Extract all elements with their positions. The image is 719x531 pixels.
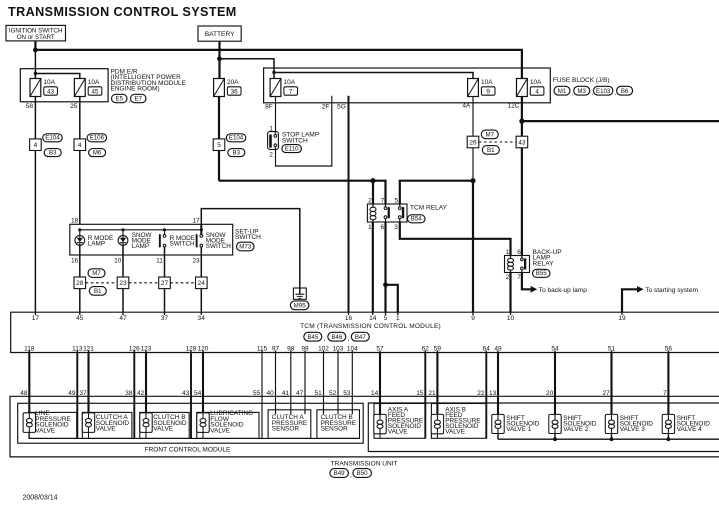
connector M7/B1 row b	[117, 277, 129, 289]
back-up lamp relay box U:B55	[505, 256, 530, 273]
svg-text:103: 103	[333, 345, 344, 352]
TCM bottom pin 99	[304, 351, 306, 353]
junction pin 6 branch	[383, 282, 388, 287]
connector E106/M6 pass-through	[74, 139, 86, 151]
svg-text:10A: 10A	[88, 79, 100, 86]
common return bus front control module	[29, 437, 360, 439]
TCM module box	[11, 312, 719, 352]
svg-text:TCM RELAY: TCM RELAY	[410, 205, 448, 212]
fuse F9 10A	[468, 79, 479, 97]
wire sensor signal	[290, 353, 292, 415]
back-up relay contact 6-7	[521, 258, 524, 261]
wire bus to R mode lamp	[79, 230, 81, 236]
svg-text:10A: 10A	[530, 79, 542, 86]
svg-text:VALVE 4: VALVE 4	[677, 426, 703, 433]
wire solenoid feed	[379, 353, 381, 415]
fuse F4 10A	[517, 79, 528, 97]
svg-text:4: 4	[535, 88, 539, 95]
wire TCM relay pin 1 to TCM pin 14	[372, 222, 374, 312]
svg-text:VALVE: VALVE	[153, 426, 174, 433]
indicator lamp (LED) SNOW MODE LAMP	[118, 236, 128, 246]
svg-text:5: 5	[394, 197, 398, 204]
svg-text:,: ,	[348, 336, 350, 343]
solenoid coil clutch B solenoid valve	[140, 413, 152, 433]
svg-text:M6: M6	[93, 149, 102, 156]
svg-text:27: 27	[161, 280, 169, 287]
wire 5G to TCM pin 16	[348, 103, 350, 312]
svg-text:M95: M95	[294, 303, 307, 310]
battery source box	[198, 26, 241, 41]
svg-text:120: 120	[198, 345, 209, 352]
TCM bottom pin 118	[28, 351, 30, 353]
svg-text:45: 45	[76, 315, 84, 322]
svg-text:23: 23	[192, 257, 200, 264]
ignition switch source box	[6, 25, 66, 41]
svg-text:97: 97	[272, 345, 280, 352]
wire sensor signal	[351, 353, 353, 415]
junction battery branch	[217, 56, 222, 61]
solenoid coil shift solenoid valve 2	[549, 414, 561, 433]
TCM relay contact 7-6	[384, 207, 387, 210]
svg-text:E110: E110	[285, 145, 299, 152]
TCM top pin 47	[122, 312, 124, 315]
wire solenoid feed	[145, 353, 147, 413]
svg-text:20A: 20A	[227, 79, 239, 86]
svg-text:2: 2	[506, 274, 510, 281]
transmission unit outer box	[10, 396, 719, 457]
svg-text:5: 5	[217, 142, 221, 149]
svg-text:ON or START: ON or START	[17, 34, 55, 41]
wire fuse 7 to stop lamp switch pin 1	[275, 97, 277, 132]
wire shift solenoid valve 1 to common bus	[497, 434, 499, 440]
indicator lamp (LED) R MODE LAMP	[75, 236, 85, 246]
svg-text:B3: B3	[49, 149, 57, 156]
svg-text:B49: B49	[334, 470, 346, 477]
svg-text:SWITCH: SWITCH	[235, 234, 261, 241]
wire relay feed run A	[219, 181, 386, 204]
wire solenoid feed	[436, 353, 438, 415]
svg-text:RELAY: RELAY	[533, 260, 555, 267]
TCM bottom pin 113	[76, 351, 78, 353]
wire solenoid feed	[667, 353, 669, 415]
svg-text:VALVE: VALVE	[388, 429, 409, 436]
svg-text:19: 19	[618, 315, 626, 322]
svg-text:SWITCH: SWITCH	[170, 241, 195, 248]
svg-text:24: 24	[198, 280, 206, 287]
axis B feed pressure solenoid valve box	[431, 404, 486, 439]
wire set-up 16 to TCM 45	[79, 245, 81, 312]
TCM bottom pin 49	[497, 351, 499, 353]
svg-text:11: 11	[156, 257, 163, 264]
svg-text:FRONT CONTROL MODULE: FRONT CONTROL MODULE	[145, 446, 231, 453]
set-up switch box M73	[70, 224, 233, 255]
solenoid coil axis B feed	[431, 414, 443, 433]
solenoid coil shift solenoid valve 4	[662, 414, 674, 433]
TCM bottom pin 120	[202, 351, 204, 353]
wire battery drop	[218, 41, 220, 78]
svg-text:43: 43	[47, 88, 55, 95]
clutch B pressure sensor box	[317, 410, 360, 439]
solenoid coil shift solenoid valve 3	[605, 414, 617, 433]
TCM top pin 34	[200, 312, 202, 315]
transmission unit inner box	[368, 403, 719, 452]
svg-text:M3: M3	[577, 88, 586, 95]
svg-text:54: 54	[551, 345, 559, 352]
svg-text:VALVE 3: VALVE 3	[620, 426, 646, 433]
wire sensor signal	[304, 353, 306, 415]
svg-text:102: 102	[318, 345, 329, 352]
svg-text:7: 7	[517, 274, 521, 281]
TCM bottom pin 104	[351, 351, 353, 353]
svg-text:2008/03/14: 2008/03/14	[23, 495, 58, 502]
fuse F36 20A	[214, 79, 225, 97]
axis A feed pressure solenoid valve box	[374, 404, 425, 439]
svg-text:VALVE: VALVE	[35, 427, 56, 434]
svg-text:128: 128	[186, 345, 197, 352]
junction fuse block internal	[272, 71, 275, 74]
svg-text:E104: E104	[45, 135, 60, 142]
junction run B to fuse 9 line	[470, 178, 475, 183]
svg-text:2: 2	[368, 197, 372, 204]
wire solenoid feed	[87, 353, 89, 413]
svg-text:115: 115	[257, 345, 268, 352]
svg-text:34: 34	[198, 315, 206, 322]
svg-text:2F: 2F	[322, 103, 330, 110]
connector refs E5 E7	[112, 94, 128, 102]
wire sensor signal	[323, 353, 325, 415]
svg-text:26: 26	[469, 139, 477, 146]
wire solenoid feed	[497, 353, 499, 415]
TCM bottom pin 102	[323, 351, 325, 353]
TCM bottom pin 54	[554, 351, 556, 353]
svg-text:B50: B50	[357, 470, 369, 477]
switch contacts SNOW MODE SWITCH	[200, 235, 203, 238]
connector refs E106 M6	[87, 134, 107, 142]
svg-text:VALVE 2: VALVE 2	[563, 426, 589, 433]
connector M7/B1 row c	[159, 277, 171, 289]
wire ignition switch to bus	[34, 41, 36, 50]
line pressure solenoid valve box	[29, 412, 77, 438]
svg-text:E5: E5	[115, 96, 123, 103]
TCM bottom pin 98	[290, 351, 292, 353]
junction ignition bus	[33, 48, 38, 53]
TCM top pin 17	[34, 312, 36, 315]
wire ignition drop into IPDM	[34, 50, 36, 79]
fuse F45 10A	[74, 79, 85, 97]
svg-text:B47: B47	[355, 334, 367, 341]
svg-text:10A: 10A	[481, 79, 493, 86]
svg-text:10: 10	[114, 257, 122, 264]
svg-text:121: 121	[83, 345, 94, 352]
wire fuse 9 through connector 26	[472, 97, 474, 181]
svg-text:37: 37	[161, 315, 169, 322]
wire sensor signal	[261, 353, 263, 439]
wire bus to snow mode lamp	[122, 230, 124, 236]
svg-text:118: 118	[24, 345, 35, 352]
wire 12C feed to page edge	[522, 120, 719, 122]
svg-text:113: 113	[72, 345, 83, 352]
set-up internal bus	[80, 229, 202, 231]
wire solenoid return	[76, 353, 78, 439]
svg-text:FUSE BLOCK (J/B): FUSE BLOCK (J/B)	[553, 77, 610, 84]
connector refs E104 B3	[43, 134, 63, 142]
TCM relay box U:B54	[367, 204, 407, 222]
TCM top pin 14	[372, 312, 374, 315]
fuse F43 10A	[30, 79, 41, 97]
svg-text:M7: M7	[486, 132, 495, 139]
junction 12C feed	[519, 119, 524, 124]
svg-text:43: 43	[518, 139, 526, 146]
svg-text:99: 99	[301, 345, 309, 352]
svg-text:4: 4	[78, 142, 82, 149]
svg-text:TCM (TRANSMISSION CONTROL MODU: TCM (TRANSMISSION CONTROL MODULE)	[300, 323, 441, 330]
svg-text:4A: 4A	[462, 103, 471, 110]
svg-text:64: 64	[483, 345, 491, 352]
svg-text:7: 7	[381, 197, 385, 204]
svg-text:45: 45	[91, 88, 99, 95]
IPDM E/R box	[20, 69, 108, 102]
TCM bottom pin 56	[667, 351, 669, 353]
wire set-up 11 to TCM 37	[164, 247, 166, 312]
svg-text:B54: B54	[411, 216, 423, 223]
wire fuse 36 down to TCM relay feed line	[218, 97, 220, 181]
svg-text:LAMP: LAMP	[132, 243, 149, 250]
svg-text:5: 5	[384, 315, 388, 322]
svg-text:,: ,	[350, 472, 352, 479]
svg-text:E106: E106	[90, 135, 105, 142]
svg-text:B1: B1	[94, 288, 102, 295]
svg-text:49: 49	[494, 345, 502, 352]
svg-text:126: 126	[129, 345, 140, 352]
svg-text:6: 6	[380, 224, 384, 231]
svg-text:2: 2	[269, 152, 273, 159]
svg-text:VALVE 1: VALVE 1	[506, 426, 532, 433]
TCM top pin 45	[79, 312, 81, 315]
svg-text:To back-up lamp: To back-up lamp	[539, 287, 587, 294]
svg-text:,: ,	[324, 336, 326, 343]
wire battery branch to fuse block	[220, 59, 275, 79]
svg-text:1: 1	[269, 125, 273, 132]
wire stop lamp switch pin 2 to fuse block 2F	[276, 103, 332, 166]
solenoid coil line pressure solenoid valve	[23, 413, 35, 433]
junction shift 2	[553, 437, 557, 441]
svg-text:1: 1	[396, 315, 400, 322]
TCM relay coil	[370, 207, 376, 211]
svg-text:To starting system: To starting system	[645, 287, 698, 294]
TCM top pin 9	[472, 312, 474, 315]
svg-text:M73: M73	[239, 244, 252, 251]
TCM bottom pin 121	[88, 351, 90, 353]
wire solenoid return	[133, 353, 135, 439]
junction IPDM internal	[34, 72, 37, 75]
svg-text:1: 1	[506, 249, 510, 256]
connector M7/B1 side B	[516, 136, 528, 148]
svg-text:VALVE: VALVE	[445, 429, 466, 436]
TCM bottom pin 103	[337, 351, 339, 353]
svg-text:25: 25	[70, 103, 78, 110]
TCM top pin 37	[164, 312, 166, 315]
svg-text:36: 36	[231, 88, 239, 95]
junction relay coil feed	[370, 178, 375, 183]
svg-text:12C: 12C	[508, 103, 520, 110]
svg-text:47: 47	[119, 315, 127, 322]
svg-text:B6: B6	[621, 88, 629, 95]
wire TCM pin 19 to starting system	[622, 289, 637, 312]
TCM relay internal pin stubs	[372, 204, 374, 208]
wire shift solenoid valve 2 to common bus	[554, 434, 556, 440]
svg-text:E103: E103	[596, 88, 611, 95]
connector ref B54	[408, 215, 426, 223]
wire shift solenoid valve 3 to common bus	[611, 434, 613, 440]
svg-text:10A: 10A	[284, 79, 296, 86]
TCM top pin 1	[397, 312, 399, 315]
wire solenoid feed	[202, 353, 204, 413]
TCM bottom pin 123	[145, 351, 147, 353]
wire set-up pin 17 to ground M95	[201, 209, 299, 294]
wire TCM relay coil pin 2 drop	[372, 181, 374, 204]
svg-text:1: 1	[368, 224, 372, 231]
svg-text:62: 62	[422, 345, 430, 352]
svg-text:M1: M1	[558, 88, 567, 95]
TCM relay contact 5-3	[398, 207, 401, 210]
wire fuse 9 line down to TCM pin 9	[472, 181, 474, 313]
svg-text:SENSOR: SENSOR	[321, 426, 349, 433]
svg-text:BATTERY: BATTERY	[205, 31, 235, 38]
ground ref M95	[290, 301, 309, 310]
front control module box	[18, 403, 364, 443]
svg-text:28: 28	[76, 280, 84, 287]
svg-text:SWITCH: SWITCH	[206, 243, 231, 250]
dashed connector link 26 to 43	[479, 141, 516, 143]
wire branch to TCM pin 1	[386, 285, 398, 312]
TCM bottom pin 59	[436, 351, 438, 353]
svg-text:10: 10	[507, 315, 515, 322]
svg-text:9: 9	[471, 315, 475, 322]
clutch A pressure sensor box	[268, 410, 311, 439]
wire TCM relay pin 3 to back-up relay pin 1	[400, 222, 511, 256]
svg-text:14: 14	[369, 315, 377, 322]
fuse block J/B box	[264, 68, 551, 103]
svg-text:5G: 5G	[337, 103, 346, 110]
wire solenoid feed	[554, 353, 556, 415]
svg-text:B46: B46	[331, 334, 343, 341]
solenoid coil shift solenoid valve 1	[492, 414, 504, 433]
wire relay contact pin 5 riser run B	[400, 181, 473, 204]
junction shift 3	[610, 437, 614, 441]
connector refs M1 M3 E103 B6	[554, 86, 570, 95]
wire set-up 23 to TCM 34	[200, 247, 202, 312]
wire shift solenoid valve 4 to common bus	[667, 434, 669, 440]
svg-text:B45: B45	[307, 334, 319, 341]
svg-text:9: 9	[486, 88, 490, 95]
svg-text:16: 16	[345, 315, 353, 322]
svg-text:104: 104	[347, 345, 358, 352]
connector refs E104 B3 (battery feed)	[226, 134, 246, 142]
wire set-up 10 to TCM 47	[122, 245, 124, 312]
svg-text:6: 6	[517, 249, 521, 256]
svg-text:4: 4	[34, 142, 38, 149]
svg-text:8F: 8F	[265, 103, 273, 110]
svg-text:17: 17	[192, 217, 200, 224]
svg-text:M7: M7	[92, 270, 101, 277]
svg-text:B3: B3	[233, 149, 241, 156]
TCM bottom pin 62	[424, 351, 426, 353]
svg-text:E104: E104	[229, 135, 244, 142]
switch contacts R MODE SWITCH	[163, 235, 166, 238]
clutch A solenoid valve box	[82, 412, 132, 438]
TCM bottom pin 51	[611, 351, 613, 353]
fuse F7 10A	[270, 79, 281, 97]
solenoid coil axis A feed	[374, 414, 386, 433]
svg-text:TRANSMISSION UNIT: TRANSMISSION UNIT	[331, 460, 398, 467]
svg-text:B1: B1	[487, 147, 495, 154]
stub pin 2F	[331, 96, 333, 103]
svg-text:TRANSMISSION CONTROL SYSTEM: TRANSMISSION CONTROL SYSTEM	[8, 5, 237, 19]
connector ref M73	[237, 242, 255, 251]
connector refs M7 B1	[481, 130, 498, 139]
wire sensor signal	[275, 353, 277, 415]
TCM bottom pin 97	[275, 351, 277, 353]
junction shift 4	[667, 437, 671, 441]
TCM top pin 5	[385, 312, 387, 315]
wire fuse 4 to back-up lamp relay pin 6	[521, 97, 523, 256]
svg-text:123: 123	[141, 345, 152, 352]
wire bus to R mode switch	[164, 230, 166, 235]
svg-text:SWITCH: SWITCH	[282, 137, 308, 144]
dashed connector row link	[86, 282, 118, 284]
svg-text:57: 57	[376, 345, 384, 352]
connector refs M7 B1 (set-up row)	[88, 269, 105, 278]
connector ref B55	[533, 269, 551, 277]
wire sensor signal	[337, 353, 339, 415]
svg-text:16: 16	[71, 257, 79, 264]
solenoid coil clutch A solenoid valve	[82, 413, 94, 433]
svg-text:18: 18	[71, 217, 79, 224]
ground symbol M95	[293, 288, 306, 299]
stop lamp switch symbol	[268, 132, 279, 150]
wire riser pin 17 into snow mode switch	[200, 224, 202, 234]
connector refs B49 B50	[330, 469, 349, 478]
svg-text:56: 56	[665, 345, 673, 352]
wire fuse block internal branch to fuse 9	[274, 73, 473, 79]
wire ignition bus to fuse block 12C	[35, 50, 522, 79]
wire solenoid return	[424, 353, 426, 439]
wire solenoid feed	[28, 353, 30, 413]
stub pin 5G	[348, 96, 350, 103]
svg-text:SENSOR: SENSOR	[272, 426, 300, 433]
svg-text:23: 23	[119, 280, 127, 287]
svg-text:LAMP: LAMP	[88, 241, 105, 248]
back-up relay internal pin stubs	[510, 256, 512, 259]
svg-text:59: 59	[434, 345, 442, 352]
connector E104/B3 pass-through	[30, 139, 42, 151]
svg-text:51: 51	[608, 345, 616, 352]
lubricating flow solenoid valve box	[197, 412, 259, 438]
TCM bottom pin 57	[379, 351, 381, 353]
wire back-up relay pin 2 to TCM pin 10	[509, 273, 511, 313]
svg-text:7: 7	[289, 88, 293, 95]
wire solenoid return	[485, 353, 487, 439]
TCM bottom pin 128	[190, 351, 192, 353]
shift solenoid common bus	[498, 438, 719, 440]
connector ref E110	[282, 145, 302, 153]
back-up relay coil	[508, 258, 514, 262]
TCM top pin 19	[621, 312, 623, 315]
connector E104/B3 pass-through 2	[213, 139, 225, 151]
svg-text:VALVE: VALVE	[96, 426, 117, 433]
connector refs B45 B46 B47	[304, 332, 322, 341]
svg-text:58: 58	[26, 103, 34, 110]
